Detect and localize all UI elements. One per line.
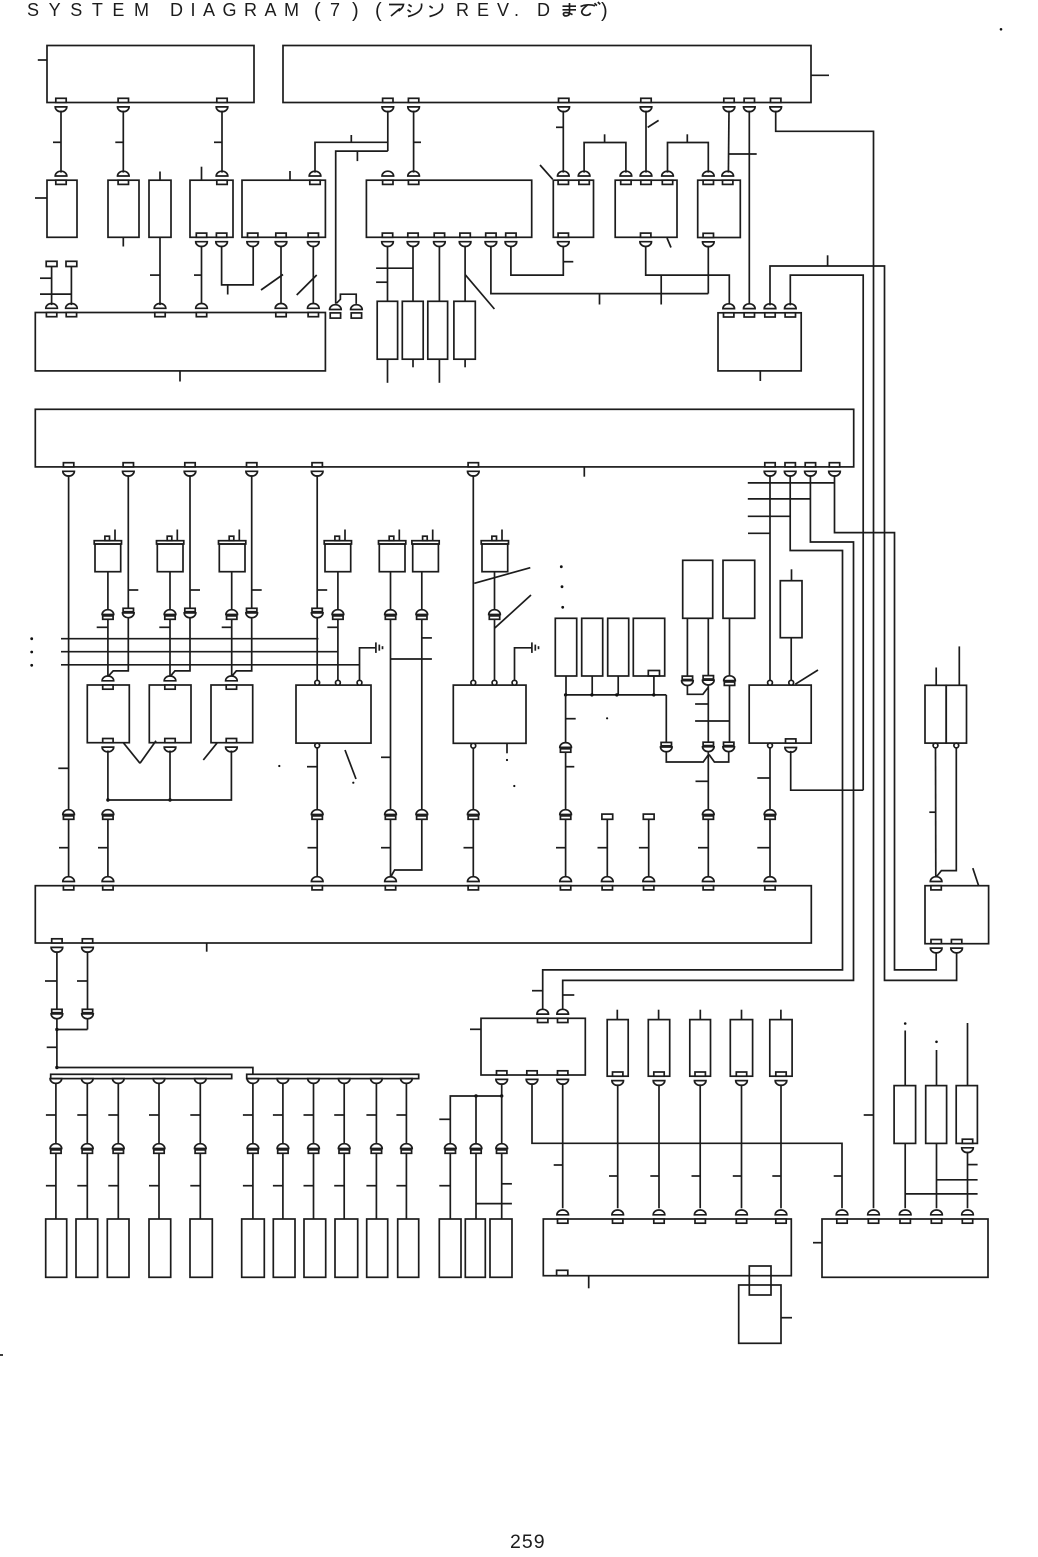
connector D1 pin 1 [63,463,73,467]
box E4 [296,685,371,743]
wire [390,619,392,809]
connector CN inline [416,610,428,615]
tick [128,589,138,591]
wire jog [336,151,388,304]
connector CN inline [401,1144,413,1149]
connector A5 top pin [310,180,320,184]
connector CN inline [703,810,715,815]
junction [106,798,109,801]
wire merge [666,752,708,762]
connector CN inline [82,1144,94,1149]
tick [45,980,57,982]
wire bus [566,694,667,696]
tick [604,134,606,142]
wire [421,619,423,809]
wire chain [343,1084,345,1144]
wire merge link [57,1029,88,1031]
tick [422,637,432,639]
connector B1 top pin 3 [155,313,165,317]
box L1 (load) [46,1219,67,1277]
wire [904,1143,906,1208]
connector H1 top pin 5 [468,886,478,890]
wire right branch [665,695,667,743]
tick [46,1185,56,1187]
wire U2 right stub [811,74,829,76]
tick [757,847,770,849]
bus bar 2 [247,1074,419,1078]
wire link A8.3-A9.1 [668,143,709,173]
wire chain [252,1084,254,1144]
connector CN inline [82,1009,92,1012]
wire jog [391,819,422,876]
wire [405,1153,407,1219]
dot ellipsis [30,664,33,667]
box C4 (module) [454,301,475,359]
tick [46,1114,56,1116]
wire M7 chain [494,572,496,610]
wire U2.7 bus D [776,111,874,1209]
motor M2 [157,541,184,544]
wire link [695,720,729,722]
wire link [336,294,356,304]
tick [563,261,573,263]
wire A5.b3-B1 [312,246,314,304]
ground comb [375,642,377,653]
box K3 [822,1219,988,1277]
box L7 (load) [273,1219,295,1277]
wire [337,619,339,680]
connector A4 bottom pin 1 [196,233,206,237]
connector K1 inner pin [557,1270,568,1275]
wire A1 left stub [35,197,47,199]
svg-text:DIAGRAM: DIAGRAM [170,0,307,20]
tick [97,626,108,628]
wire link A4.b2-A5.b1 [222,246,254,285]
wire A6.b4 down [464,246,466,302]
wire chain [199,1084,201,1144]
box L2 (load) [76,1219,98,1277]
wire J1 left stub [470,1028,481,1030]
connector A7 top pin 2 [579,180,589,184]
wire [617,676,619,695]
connector J1 bottom pin 1 [497,1071,507,1075]
connector CNf1 (floating) [330,305,342,310]
slash mark [140,741,156,764]
circle pin [954,743,959,748]
wire A3.b-B1 [159,237,161,305]
wire C4 stub [464,359,466,367]
dot ellipsis [30,651,33,654]
wire [707,752,709,809]
wire A6.b3 down [438,246,440,302]
circle pin [789,680,794,685]
connector K1 top pin [654,1219,664,1223]
connector CN inline [560,743,572,748]
connector CN inline [489,610,501,615]
box L12 (load) [439,1219,461,1277]
connector E3 top pin [226,685,236,689]
box J7 (module) [894,1086,916,1144]
box G5 [946,685,966,743]
connector D1 pin 3 [185,463,195,467]
wire chain [617,1084,619,1208]
wire branch to A5 [315,142,388,172]
slash mark [261,275,283,291]
connector CN inline [308,1144,320,1149]
connector B1 top pin 1 [46,313,56,317]
wire A4 top stub [201,167,203,181]
tick [308,847,318,849]
connector module bottom pin [736,1072,746,1076]
tick [194,274,202,276]
tick [439,1118,450,1120]
box L9 (load) [335,1219,358,1277]
wire [313,1153,315,1219]
wire U2.3-A7 [562,111,564,173]
connector B2 top pin 4 [785,313,795,317]
tick [77,980,88,982]
tick [356,151,358,161]
tick [695,703,708,705]
box A9 [698,180,741,237]
tick [214,141,222,143]
wire M5 chain [390,572,392,610]
connector H1 top pin 4 [385,886,395,890]
wire A8.b-B2 net [646,246,730,304]
wire A9.b down [707,246,709,294]
dot mark top right [1000,28,1003,31]
tick [77,1185,87,1187]
wire [707,686,709,743]
wire merge [709,752,729,762]
box L8 (load) [304,1219,326,1277]
tick [317,589,327,591]
connector K1 top pin [776,1219,786,1223]
connector CN inline [123,608,133,611]
connector A4 bottom pin 2 [216,233,226,237]
slash mark [667,238,671,248]
tick [334,1185,344,1187]
box J9 (module) [956,1086,977,1144]
tick [827,255,829,266]
wire chain [699,1084,701,1208]
wire branch H3 [748,515,790,517]
connector E6 bottom pin [786,739,796,743]
wire G5.b [937,748,957,877]
wire stub [616,1010,618,1020]
box G3 (narrow) [780,581,802,638]
connector D1 pin 6 [468,463,478,467]
connector CN start [602,814,613,819]
connector A8 top pin 3 [662,180,672,184]
wire D1.3 chain [189,475,191,608]
connector module bottom pin [776,1072,786,1076]
wire [501,1096,503,1144]
connector A6 bottom pin 6 [506,233,516,237]
connector B1 top pin 6 [308,313,318,317]
circle pin [471,743,476,748]
tick [834,1175,842,1177]
circle pin [492,680,497,685]
wire stub [780,1010,782,1020]
wire [343,1153,345,1219]
wire [565,752,567,809]
connector A4 top pin [217,180,227,184]
connector CN inline [247,1144,259,1149]
box L4 (load) [149,1219,171,1277]
wire [282,1153,284,1219]
bus bar 1 [51,1074,232,1078]
connector CN inline [102,810,114,815]
box C1 (module) [377,301,397,359]
wire D1.4 chain [251,475,253,608]
box A6 (I/O board) [366,180,531,237]
wire bus line 2 [61,651,338,653]
junction [590,693,593,696]
connector CN inline [385,810,397,815]
wire [475,1153,477,1219]
connector K1 top pin [736,1219,746,1223]
tick [748,532,770,534]
tick [968,1164,978,1166]
connector CN inline [724,676,736,681]
box F4 [633,618,664,676]
slash mark [540,165,553,179]
connector module bottom pin [613,1072,623,1076]
tick [381,756,391,758]
wire chain [658,1084,660,1208]
connector U2 pin 4 [641,98,651,102]
wire link A7.2-A8.1 [584,143,626,173]
wire D1.8 bus A [543,475,843,1011]
tick [159,626,170,628]
dot mark [352,782,354,784]
wire [158,1153,160,1219]
dot mark [935,1041,938,1044]
connector H1 bottom pin 2 [82,939,92,943]
wire A4.b1-B1 [201,246,203,304]
wire [769,819,771,877]
wire K1 bottom stub [588,1276,590,1289]
wire to ground [515,648,532,681]
box L5 (load) [190,1219,212,1277]
wire E1.b chain [107,751,109,801]
wire M2 chain [169,572,171,610]
tick [563,994,575,996]
wire jog [108,618,128,676]
wire [475,1096,477,1144]
box A1 [47,180,77,237]
connector H1 top pin 8 [644,886,654,890]
box H1 (relay board) [35,886,811,943]
connector CN inline [63,810,75,815]
box E2 [149,685,191,743]
wire U1.2-A2 [122,111,124,173]
wire [70,267,72,306]
connector A5 bottom pin 1 [248,233,258,237]
box K1 [543,1219,791,1276]
wire chain [313,1084,315,1144]
connector CN inline [703,742,713,745]
tick [414,141,421,143]
wire B2.4 bus C [790,275,863,790]
wire K2 right stub [781,1317,792,1319]
tick [243,1185,253,1187]
wire M4 chain [337,572,339,610]
connector E1 bottom pin [103,739,113,743]
connector CN inline [312,608,322,611]
wire A6.b2 down [412,246,414,302]
dot mark [506,759,508,761]
tick [252,589,262,591]
wire G2.a [729,618,731,675]
box A8 [615,180,677,237]
circle pin [336,680,341,685]
box C3 (module) [428,301,448,359]
box L11 (load) [398,1219,419,1277]
connector A1 top pin [56,180,66,184]
wire chain [282,1084,284,1144]
wire link [376,267,413,269]
connector B2 top pin 3 [765,313,775,317]
connector D1 pin 7 [765,463,775,467]
wire stub [599,294,601,305]
connector D1 pin 4 [247,463,257,467]
tick [307,766,317,768]
connector A9 top pin 2 [723,180,733,184]
svg-text:7: 7 [330,0,340,20]
wire link [391,658,432,660]
connector bar socket [113,1079,125,1084]
junction [55,1028,58,1031]
connector F4 inner pin [648,671,659,677]
connector A6 bottom pin 2 [408,233,418,237]
motor M7 [481,541,508,544]
connector H1 top pin 6 [560,886,570,890]
box H2 [925,886,989,944]
connector CN start [643,814,654,819]
wire chain [405,1084,407,1144]
connector A6 top pin 1 [383,180,393,184]
wire G1.a [686,618,688,676]
svg-text:.: . [514,0,519,20]
wire C3 stub [438,359,440,383]
wire E5.b chain [472,748,474,809]
wire branch H2 [748,498,811,500]
connector H1 bottom pin 1 [52,939,62,943]
connector E2 bottom pin [165,739,175,743]
dot mark [513,785,515,787]
tick [304,1185,314,1187]
junction [168,798,171,801]
connector H2 bottom pin 1 [931,940,941,944]
connector CN inline [470,1144,482,1149]
slash mark [465,275,494,309]
tick [149,1185,159,1187]
box A5 [242,180,325,237]
dash mark left edge [0,1354,3,1356]
connector A6 bottom pin 1 [382,233,392,237]
wire left branch [565,695,567,743]
wire J1.b2 net [532,1083,842,1208]
wire [375,1153,377,1219]
wire chain [55,1084,57,1144]
tick [190,589,200,591]
connector B1 top pin 2 [66,313,76,317]
connector D1 pin 9 [805,463,815,467]
wire D1.9 bus B [563,475,854,1011]
connector B1 top pin 4 [196,313,206,317]
wire [967,1152,969,1209]
connector K3 top pin [900,1219,910,1223]
connector CN inline [560,810,572,815]
connector U1 pin 2 [118,98,128,102]
tick [273,1114,283,1116]
connector A7 top pin 1 [558,180,568,184]
wire [472,819,474,877]
connector J1 bottom pin 3 [558,1071,568,1075]
wire bus line 3 [61,664,360,666]
connector U2 pin 6 [744,98,754,102]
tick [698,847,708,849]
wire chain [741,1084,743,1208]
connector K2 block [749,1266,771,1295]
connector CN inline [371,1144,383,1149]
wire to bus bars [57,1068,253,1075]
connector H1 top pin 7 [602,886,612,890]
connector bar socket [401,1079,413,1084]
tick [40,277,52,279]
connector A8 top pin 1 [621,180,631,184]
wire U1 left stub [38,59,47,61]
connector module bottom pin [654,1072,664,1076]
wire link [937,1179,978,1181]
connector CN inline [703,676,713,679]
box B2 [718,313,801,371]
wire [316,618,318,680]
dot mark [904,1022,907,1025]
connector CN inline [338,1144,350,1149]
wire [68,819,70,877]
connector CN inline [50,1144,62,1149]
wire [565,676,567,695]
wire G4.b [935,748,937,878]
junction [474,1094,477,1097]
wire M6 chain [421,572,423,610]
tick [366,1185,376,1187]
connector D1 pin 10 [829,463,839,467]
svg-text:): ) [352,0,359,22]
connector CNt1 start [46,261,57,266]
wire [169,619,171,678]
connector U1 pin 3 [217,98,227,102]
connector A8 bottom pin [641,233,651,237]
connector K3 top pin [837,1219,847,1223]
circle pin [315,680,320,685]
wire [107,619,109,678]
slash mark [123,743,140,764]
wire [107,819,109,877]
connector CN inline [277,1144,289,1149]
connector H1 top pin 2 [103,886,113,890]
motor M1 [94,541,121,544]
slash mark [345,750,356,779]
tick [376,281,387,283]
wire D1.7 chain [769,475,771,680]
wire [653,676,655,695]
box A7 [553,180,593,237]
wire D1.10 bus F [835,475,937,970]
